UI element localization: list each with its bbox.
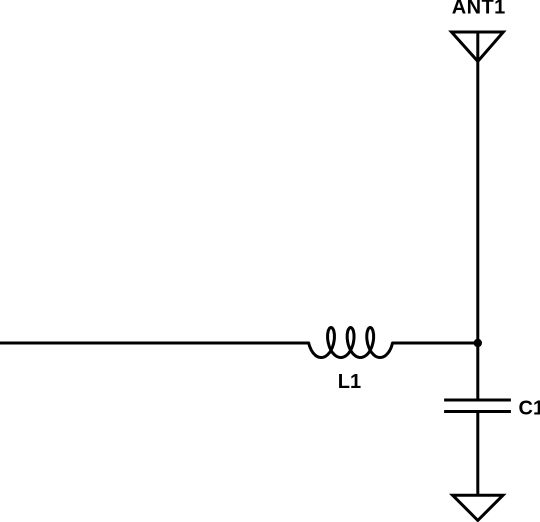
wire left input to inductor <box>0 342 309 345</box>
node junction dot <box>474 339 482 347</box>
wire capacitor to ground <box>476 412 479 496</box>
capacitor C1 top plate <box>444 399 511 402</box>
svg-text:C1: C1 <box>519 398 540 420</box>
wire inductor to node <box>393 342 478 345</box>
ground <box>453 495 503 520</box>
wire node to capacitor <box>476 343 479 400</box>
antenna ANT1 symbol <box>452 32 504 61</box>
inductor L1 <box>309 328 393 358</box>
capacitor C1 bottom plate <box>444 410 511 413</box>
svg-text:ANT1: ANT1 <box>452 0 506 19</box>
svg-text:L1: L1 <box>338 371 361 393</box>
wire antenna to node <box>476 61 479 343</box>
